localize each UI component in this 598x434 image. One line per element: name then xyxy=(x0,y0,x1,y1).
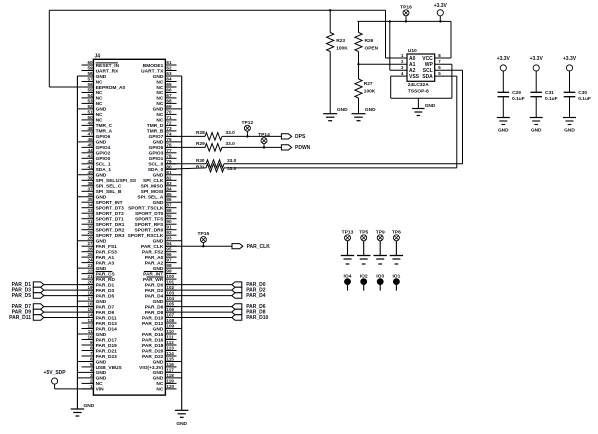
svg-text:GND: GND xyxy=(153,299,164,305)
svg-text:113: 113 xyxy=(166,346,174,351)
svg-text:43: 43 xyxy=(87,153,93,158)
svg-text:NC: NC xyxy=(156,387,163,393)
svg-text:22: 22 xyxy=(87,269,93,274)
svg-text:GND: GND xyxy=(153,359,164,365)
svg-text:PAR_D12: PAR_D12 xyxy=(142,321,164,327)
svg-text:GPIO3: GPIO3 xyxy=(149,151,164,157)
svg-text:VSS: VSS xyxy=(409,74,420,80)
svg-text:GND: GND xyxy=(531,128,542,134)
svg-text:63: 63 xyxy=(166,71,172,76)
svg-text:31: 31 xyxy=(87,219,93,224)
svg-text:101: 101 xyxy=(166,280,174,285)
svg-text:+3.3V: +3.3V xyxy=(497,56,511,62)
svg-text:0.1uF: 0.1uF xyxy=(512,96,525,102)
svg-text:33.0: 33.0 xyxy=(226,130,236,136)
svg-text:27: 27 xyxy=(87,241,93,246)
svg-text:37: 37 xyxy=(87,186,93,191)
svg-text:TP16: TP16 xyxy=(400,4,412,10)
svg-text:23: 23 xyxy=(87,263,93,268)
svg-text:41: 41 xyxy=(87,164,93,169)
svg-text:TP6: TP6 xyxy=(392,229,401,235)
svg-text:3: 3 xyxy=(90,373,93,378)
svg-text:PAR_D19: PAR_D19 xyxy=(96,343,118,349)
svg-text:45: 45 xyxy=(87,142,93,147)
svg-text:PAR_D3: PAR_D3 xyxy=(96,288,115,294)
svg-text:SCL_1: SCL_1 xyxy=(96,162,111,168)
svg-text:11: 11 xyxy=(88,329,93,334)
svg-text:PAR_D18: PAR_D18 xyxy=(142,343,164,349)
svg-text:SPORT_DT0: SPORT_DT0 xyxy=(135,211,164,217)
svg-text:116: 116 xyxy=(166,362,174,367)
svg-text:NC: NC xyxy=(156,85,163,91)
svg-text:42: 42 xyxy=(87,159,93,164)
svg-text:18: 18 xyxy=(87,291,93,296)
svg-text:5: 5 xyxy=(90,362,93,367)
svg-text:58: 58 xyxy=(87,71,93,76)
svg-text:102: 102 xyxy=(166,285,174,290)
svg-text:109: 109 xyxy=(166,324,174,329)
svg-text:112: 112 xyxy=(166,340,174,345)
svg-text:GND: GND xyxy=(96,332,107,338)
svg-text:7: 7 xyxy=(90,351,93,356)
svg-text:PAR_D14: PAR_D14 xyxy=(96,326,118,332)
svg-text:80: 80 xyxy=(166,164,172,169)
svg-text:17: 17 xyxy=(87,296,93,301)
svg-text:NC: NC xyxy=(96,381,103,387)
svg-text:+3.3V: +3.3V xyxy=(563,56,577,62)
svg-text:GND: GND xyxy=(498,128,509,134)
svg-text:NC: NC xyxy=(156,118,163,124)
svg-text:R31: R31 xyxy=(196,165,205,170)
svg-text:GPIO2: GPIO2 xyxy=(96,151,111,157)
svg-text:0.1uF: 0.1uF xyxy=(545,96,558,102)
svg-text:PAR_D5: PAR_D5 xyxy=(96,293,115,299)
svg-text:PAR_D15: PAR_D15 xyxy=(142,332,164,338)
svg-text:R29: R29 xyxy=(196,141,205,147)
svg-text:PAR_FS2: PAR_FS2 xyxy=(142,250,164,256)
svg-text:78: 78 xyxy=(166,153,172,158)
svg-text:TP9: TP9 xyxy=(376,229,385,235)
svg-text:71: 71 xyxy=(166,115,172,120)
svg-text:U10: U10 xyxy=(408,48,417,54)
svg-text:73: 73 xyxy=(166,126,172,131)
svg-text:PAR_RD: PAR_RD xyxy=(96,277,116,283)
svg-text:PAR_CLK: PAR_CLK xyxy=(247,244,271,250)
svg-text:VIN: VIN xyxy=(96,387,105,393)
svg-text:C30: C30 xyxy=(578,90,587,96)
svg-text:94: 94 xyxy=(166,241,172,246)
svg-text:25: 25 xyxy=(87,252,93,257)
svg-text:33: 33 xyxy=(87,208,93,213)
svg-text:PAR_D21: PAR_D21 xyxy=(96,348,118,354)
svg-text:57: 57 xyxy=(87,77,93,82)
svg-text:SPORT_RFS: SPORT_RFS xyxy=(135,222,165,228)
svg-text:39: 39 xyxy=(87,175,93,180)
svg-text:61: 61 xyxy=(166,60,172,65)
svg-text:+3.3V: +3.3V xyxy=(530,56,544,62)
svg-text:GND: GND xyxy=(153,200,164,206)
svg-text:NC: NC xyxy=(156,101,163,107)
svg-text:SPI_MISO: SPI_MISO xyxy=(141,184,164,190)
svg-text:34: 34 xyxy=(87,203,93,208)
svg-text:38: 38 xyxy=(87,181,93,186)
svg-text:PAR_D6: PAR_D6 xyxy=(145,304,164,310)
svg-text:13: 13 xyxy=(87,318,93,323)
svg-text:PAR_D13: PAR_D13 xyxy=(96,321,118,327)
svg-text:PAR_D8: PAR_D8 xyxy=(145,310,164,316)
svg-text:TP15: TP15 xyxy=(198,231,210,237)
svg-text:115: 115 xyxy=(166,357,174,362)
svg-text:R23: R23 xyxy=(336,38,345,44)
svg-text:EEPROM_A0: EEPROM_A0 xyxy=(96,85,126,91)
svg-text:GND: GND xyxy=(153,370,164,376)
svg-text:59: 59 xyxy=(87,66,93,71)
svg-text:28: 28 xyxy=(87,236,93,241)
svg-text:PAR_D10: PAR_D10 xyxy=(142,315,164,321)
svg-text:100: 100 xyxy=(166,274,174,279)
svg-text:TSSOP-8: TSSOP-8 xyxy=(408,88,429,94)
svg-text:USB_VBUS: USB_VBUS xyxy=(96,365,123,371)
svg-text:TMR_C: TMR_C xyxy=(96,123,113,129)
svg-text:PAR_D11: PAR_D11 xyxy=(9,315,31,321)
svg-text:12: 12 xyxy=(87,324,93,329)
svg-text:PAR_D10: PAR_D10 xyxy=(246,315,268,321)
svg-text:33.0: 33.0 xyxy=(227,166,237,172)
svg-text:GND: GND xyxy=(96,370,107,376)
svg-text:SPI_SEL1/SPI_SS: SPI_SEL1/SPI_SS xyxy=(96,178,137,184)
svg-text:29: 29 xyxy=(87,230,93,235)
svg-text:96: 96 xyxy=(166,252,172,257)
svg-text:64: 64 xyxy=(166,77,172,82)
svg-text:65: 65 xyxy=(166,82,172,87)
svg-text:54: 54 xyxy=(87,93,93,98)
svg-text:117: 117 xyxy=(166,367,174,372)
svg-text:98: 98 xyxy=(166,263,172,268)
svg-text:20: 20 xyxy=(87,280,93,285)
svg-text:103: 103 xyxy=(166,291,174,296)
svg-text:49: 49 xyxy=(87,120,93,125)
svg-text:SDA_0: SDA_0 xyxy=(148,167,164,173)
svg-text:GPIO6: GPIO6 xyxy=(96,134,111,140)
svg-text:UART_RX: UART_RX xyxy=(96,68,119,74)
svg-text:84: 84 xyxy=(166,186,172,191)
svg-text:9: 9 xyxy=(90,340,93,345)
svg-text:GND: GND xyxy=(564,128,575,134)
svg-text:NC: NC xyxy=(96,101,103,107)
svg-text:48: 48 xyxy=(87,126,93,131)
svg-text:88: 88 xyxy=(166,208,172,213)
svg-text:TMR_B: TMR_B xyxy=(147,129,164,135)
svg-text:PAR_D4: PAR_D4 xyxy=(145,293,164,299)
svg-text:66: 66 xyxy=(166,88,172,93)
svg-text:GND: GND xyxy=(96,299,107,305)
svg-text:SPORT_RSCLK: SPORT_RSCLK xyxy=(128,233,164,239)
svg-text:30: 30 xyxy=(87,225,93,230)
svg-text:PAR_A1: PAR_A1 xyxy=(96,255,115,261)
svg-text:68: 68 xyxy=(166,98,172,103)
svg-text:PAR_D16: PAR_D16 xyxy=(142,337,164,343)
svg-text:SPORT_TSCLK: SPORT_TSCLK xyxy=(128,206,164,212)
svg-text:UART_TX: UART_TX xyxy=(141,68,164,74)
svg-text:GND: GND xyxy=(176,421,187,427)
svg-text:91: 91 xyxy=(166,225,172,230)
svg-text:90: 90 xyxy=(166,219,172,224)
svg-text:GND: GND xyxy=(425,103,436,109)
svg-text:24: 24 xyxy=(87,258,93,263)
svg-text:PAR_D2: PAR_D2 xyxy=(145,288,164,294)
svg-text:53: 53 xyxy=(87,98,93,103)
svg-text:PAR_FS3: PAR_FS3 xyxy=(96,250,118,256)
svg-text:110: 110 xyxy=(166,329,174,334)
svg-text:SPORT_DT2: SPORT_DT2 xyxy=(96,211,125,217)
svg-text:95: 95 xyxy=(166,247,172,252)
svg-text:PAR_D7: PAR_D7 xyxy=(96,304,115,310)
svg-text:GND: GND xyxy=(153,326,164,332)
svg-text:NC: NC xyxy=(156,90,163,96)
svg-text:4: 4 xyxy=(90,367,93,372)
svg-text:SPORT_INT: SPORT_INT xyxy=(96,200,123,206)
svg-text:GPIO7: GPIO7 xyxy=(149,134,164,140)
svg-text:NC: NC xyxy=(96,90,103,96)
svg-text:74: 74 xyxy=(166,131,172,136)
svg-text:GND: GND xyxy=(96,376,107,382)
svg-text:46: 46 xyxy=(87,137,93,142)
svg-text:51: 51 xyxy=(87,109,93,114)
svg-text:15: 15 xyxy=(87,307,93,312)
svg-text:GND: GND xyxy=(96,74,107,80)
svg-text:1: 1 xyxy=(90,384,93,389)
svg-text:60: 60 xyxy=(87,60,93,65)
svg-text:21: 21 xyxy=(87,274,93,279)
svg-text:PAR_D11: PAR_D11 xyxy=(96,315,117,321)
svg-text:GND: GND xyxy=(153,173,164,179)
svg-text:GPIO5: GPIO5 xyxy=(149,145,164,151)
svg-text:106: 106 xyxy=(166,307,174,312)
svg-text:GPIO4: GPIO4 xyxy=(96,145,111,151)
svg-text:8: 8 xyxy=(90,346,93,351)
svg-text:C31: C31 xyxy=(545,90,554,96)
svg-text:TP14: TP14 xyxy=(258,132,270,138)
svg-text:GND: GND xyxy=(96,107,107,113)
svg-text:62: 62 xyxy=(166,66,172,71)
svg-text:81: 81 xyxy=(166,170,172,175)
svg-text:SPI_MOSI: SPI_MOSI xyxy=(141,189,164,195)
svg-text:VCC: VCC xyxy=(422,56,433,62)
svg-text:PAR_A3: PAR_A3 xyxy=(96,260,115,266)
svg-text:PAR_D9: PAR_D9 xyxy=(96,310,115,316)
svg-text:GPIO1: GPIO1 xyxy=(149,156,164,162)
svg-text:PAR_D23: PAR_D23 xyxy=(96,354,118,360)
svg-text:PAR_A2: PAR_A2 xyxy=(145,260,164,266)
svg-text:114: 114 xyxy=(166,351,174,356)
svg-text:R26: R26 xyxy=(365,38,374,44)
svg-text:36: 36 xyxy=(87,192,93,197)
svg-text:92: 92 xyxy=(166,230,172,235)
svg-text:GND: GND xyxy=(153,107,164,113)
svg-text:GPIO0: GPIO0 xyxy=(96,156,111,162)
svg-text:PAR_D1: PAR_D1 xyxy=(96,282,115,288)
svg-text:NC: NC xyxy=(156,79,163,85)
svg-text:47: 47 xyxy=(87,131,93,136)
svg-text:107: 107 xyxy=(166,313,174,318)
svg-text:83: 83 xyxy=(166,181,172,186)
svg-text:67: 67 xyxy=(166,93,172,98)
svg-text:75: 75 xyxy=(166,137,172,142)
svg-text:97: 97 xyxy=(166,258,172,263)
svg-text:0.1uF: 0.1uF xyxy=(578,96,591,102)
svg-text:TP12: TP12 xyxy=(242,120,254,126)
svg-text:SPORT_DR3: SPORT_DR3 xyxy=(96,233,125,239)
svg-text:PAR_D4: PAR_D4 xyxy=(246,293,266,299)
svg-text:100K: 100K xyxy=(336,45,348,51)
svg-text:PAR_D5: PAR_D5 xyxy=(12,293,32,299)
svg-text:119: 119 xyxy=(166,378,174,383)
svg-text:+3.3V: +3.3V xyxy=(434,3,448,9)
svg-text:105: 105 xyxy=(166,302,174,307)
svg-text:77: 77 xyxy=(166,148,172,153)
svg-text:PDWN: PDWN xyxy=(295,145,311,151)
svg-text:NC: NC xyxy=(156,381,163,387)
svg-text:RESET_IN: RESET_IN xyxy=(96,63,120,69)
svg-text:26: 26 xyxy=(87,247,93,252)
svg-text:6: 6 xyxy=(90,357,93,362)
svg-text:DPS: DPS xyxy=(295,134,306,140)
svg-text:55: 55 xyxy=(87,88,93,93)
svg-text:PAR_D20: PAR_D20 xyxy=(142,348,164,354)
svg-text:100K: 100K xyxy=(364,88,376,94)
svg-text:2: 2 xyxy=(90,378,93,383)
svg-text:104: 104 xyxy=(166,296,174,301)
svg-text:GND: GND xyxy=(96,140,107,146)
svg-text:118: 118 xyxy=(166,373,174,378)
svg-text:PAR_D0: PAR_D0 xyxy=(145,282,164,288)
svg-text:TP5: TP5 xyxy=(359,229,368,235)
svg-text:SCL_0: SCL_0 xyxy=(148,162,163,168)
svg-text:33.0: 33.0 xyxy=(226,141,236,147)
svg-text:NC: NC xyxy=(96,96,103,102)
svg-text:99: 99 xyxy=(166,269,172,274)
svg-text:SPI_SEL_B: SPI_SEL_B xyxy=(96,189,122,195)
svg-text:52: 52 xyxy=(87,104,93,109)
svg-text:40: 40 xyxy=(87,170,93,175)
svg-text:111: 111 xyxy=(166,335,174,340)
svg-text:+5V_SDP: +5V_SDP xyxy=(44,370,67,376)
svg-text:108: 108 xyxy=(166,318,174,323)
svg-text:NC: NC xyxy=(96,79,103,85)
svg-text:44: 44 xyxy=(87,148,93,153)
svg-text:BMODE1: BMODE1 xyxy=(143,63,164,69)
svg-text:SPORT_DT3: SPORT_DT3 xyxy=(96,206,125,212)
svg-text:24LC32A: 24LC32A xyxy=(408,82,429,88)
svg-text:GND: GND xyxy=(153,376,164,382)
svg-text:TP13: TP13 xyxy=(342,229,354,235)
svg-text:SPORT_DR0: SPORT_DR0 xyxy=(135,228,164,234)
svg-text:R28: R28 xyxy=(196,130,205,136)
svg-text:10: 10 xyxy=(87,335,93,340)
svg-text:33.0: 33.0 xyxy=(227,158,237,164)
svg-text:SPORT_TFS: SPORT_TFS xyxy=(135,217,164,223)
svg-text:SPORT_DT1: SPORT_DT1 xyxy=(96,217,125,223)
svg-text:PAR_A0: PAR_A0 xyxy=(145,255,164,261)
svg-text:120: 120 xyxy=(166,384,174,389)
svg-text:82: 82 xyxy=(166,175,172,180)
svg-text:19: 19 xyxy=(87,285,93,290)
svg-text:OPEN: OPEN xyxy=(365,45,379,51)
svg-text:50: 50 xyxy=(87,115,93,120)
svg-text:R30: R30 xyxy=(196,158,205,163)
svg-text:TMR_A: TMR_A xyxy=(96,129,113,135)
svg-text:85: 85 xyxy=(166,192,172,197)
svg-text:A0: A0 xyxy=(409,56,416,62)
svg-text:SPI_CLK: SPI_CLK xyxy=(143,178,164,184)
svg-text:93: 93 xyxy=(166,236,172,241)
svg-text:89: 89 xyxy=(166,214,172,219)
svg-text:GND: GND xyxy=(153,140,164,146)
svg-text:72: 72 xyxy=(166,120,172,125)
svg-text:NC: NC xyxy=(156,112,163,118)
svg-text:SPORT_DR2: SPORT_DR2 xyxy=(96,228,125,234)
svg-text:GND: GND xyxy=(153,74,164,80)
svg-text:PAR_D22: PAR_D22 xyxy=(142,354,164,360)
svg-text:NC: NC xyxy=(96,118,103,124)
svg-text:GND: GND xyxy=(337,107,348,113)
svg-text:R27: R27 xyxy=(364,81,373,87)
svg-text:NC: NC xyxy=(96,112,103,118)
svg-text:GND: GND xyxy=(84,403,95,409)
svg-text:79: 79 xyxy=(166,159,172,164)
svg-text:35: 35 xyxy=(87,197,93,202)
svg-text:PAR_CLK: PAR_CLK xyxy=(141,244,164,250)
svg-text:56: 56 xyxy=(87,82,93,87)
svg-text:VIO(+3.3V): VIO(+3.3V) xyxy=(139,365,164,371)
svg-text:PAR_WR: PAR_WR xyxy=(143,277,164,283)
svg-text:16: 16 xyxy=(87,302,93,307)
svg-text:70: 70 xyxy=(166,109,172,114)
svg-text:SDA_1: SDA_1 xyxy=(96,167,112,173)
svg-text:SPORT_DR1: SPORT_DR1 xyxy=(96,222,125,228)
svg-text:J4: J4 xyxy=(95,53,101,59)
svg-text:GND: GND xyxy=(96,239,107,245)
svg-text:PAR_FS1: PAR_FS1 xyxy=(96,244,118,250)
svg-text:GND: GND xyxy=(96,173,107,179)
svg-text:PAR_D17: PAR_D17 xyxy=(96,337,118,343)
svg-text:C29: C29 xyxy=(512,90,521,96)
svg-text:SPI_SEL_C: SPI_SEL_C xyxy=(96,184,122,190)
svg-text:GND: GND xyxy=(365,107,376,113)
svg-text:87: 87 xyxy=(166,203,172,208)
svg-text:GND: GND xyxy=(153,239,164,245)
svg-text:GND: GND xyxy=(96,195,107,201)
svg-text:69: 69 xyxy=(166,104,172,109)
svg-text:TMR_D: TMR_D xyxy=(147,123,164,129)
svg-text:SDA: SDA xyxy=(422,74,433,80)
svg-text:32: 32 xyxy=(87,214,93,219)
svg-text:GND: GND xyxy=(96,359,107,365)
svg-text:SPI_SEL_A: SPI_SEL_A xyxy=(137,195,163,201)
svg-text:NC: NC xyxy=(156,96,163,102)
svg-text:76: 76 xyxy=(166,142,172,147)
svg-text:86: 86 xyxy=(166,197,172,202)
svg-text:14: 14 xyxy=(87,313,93,318)
